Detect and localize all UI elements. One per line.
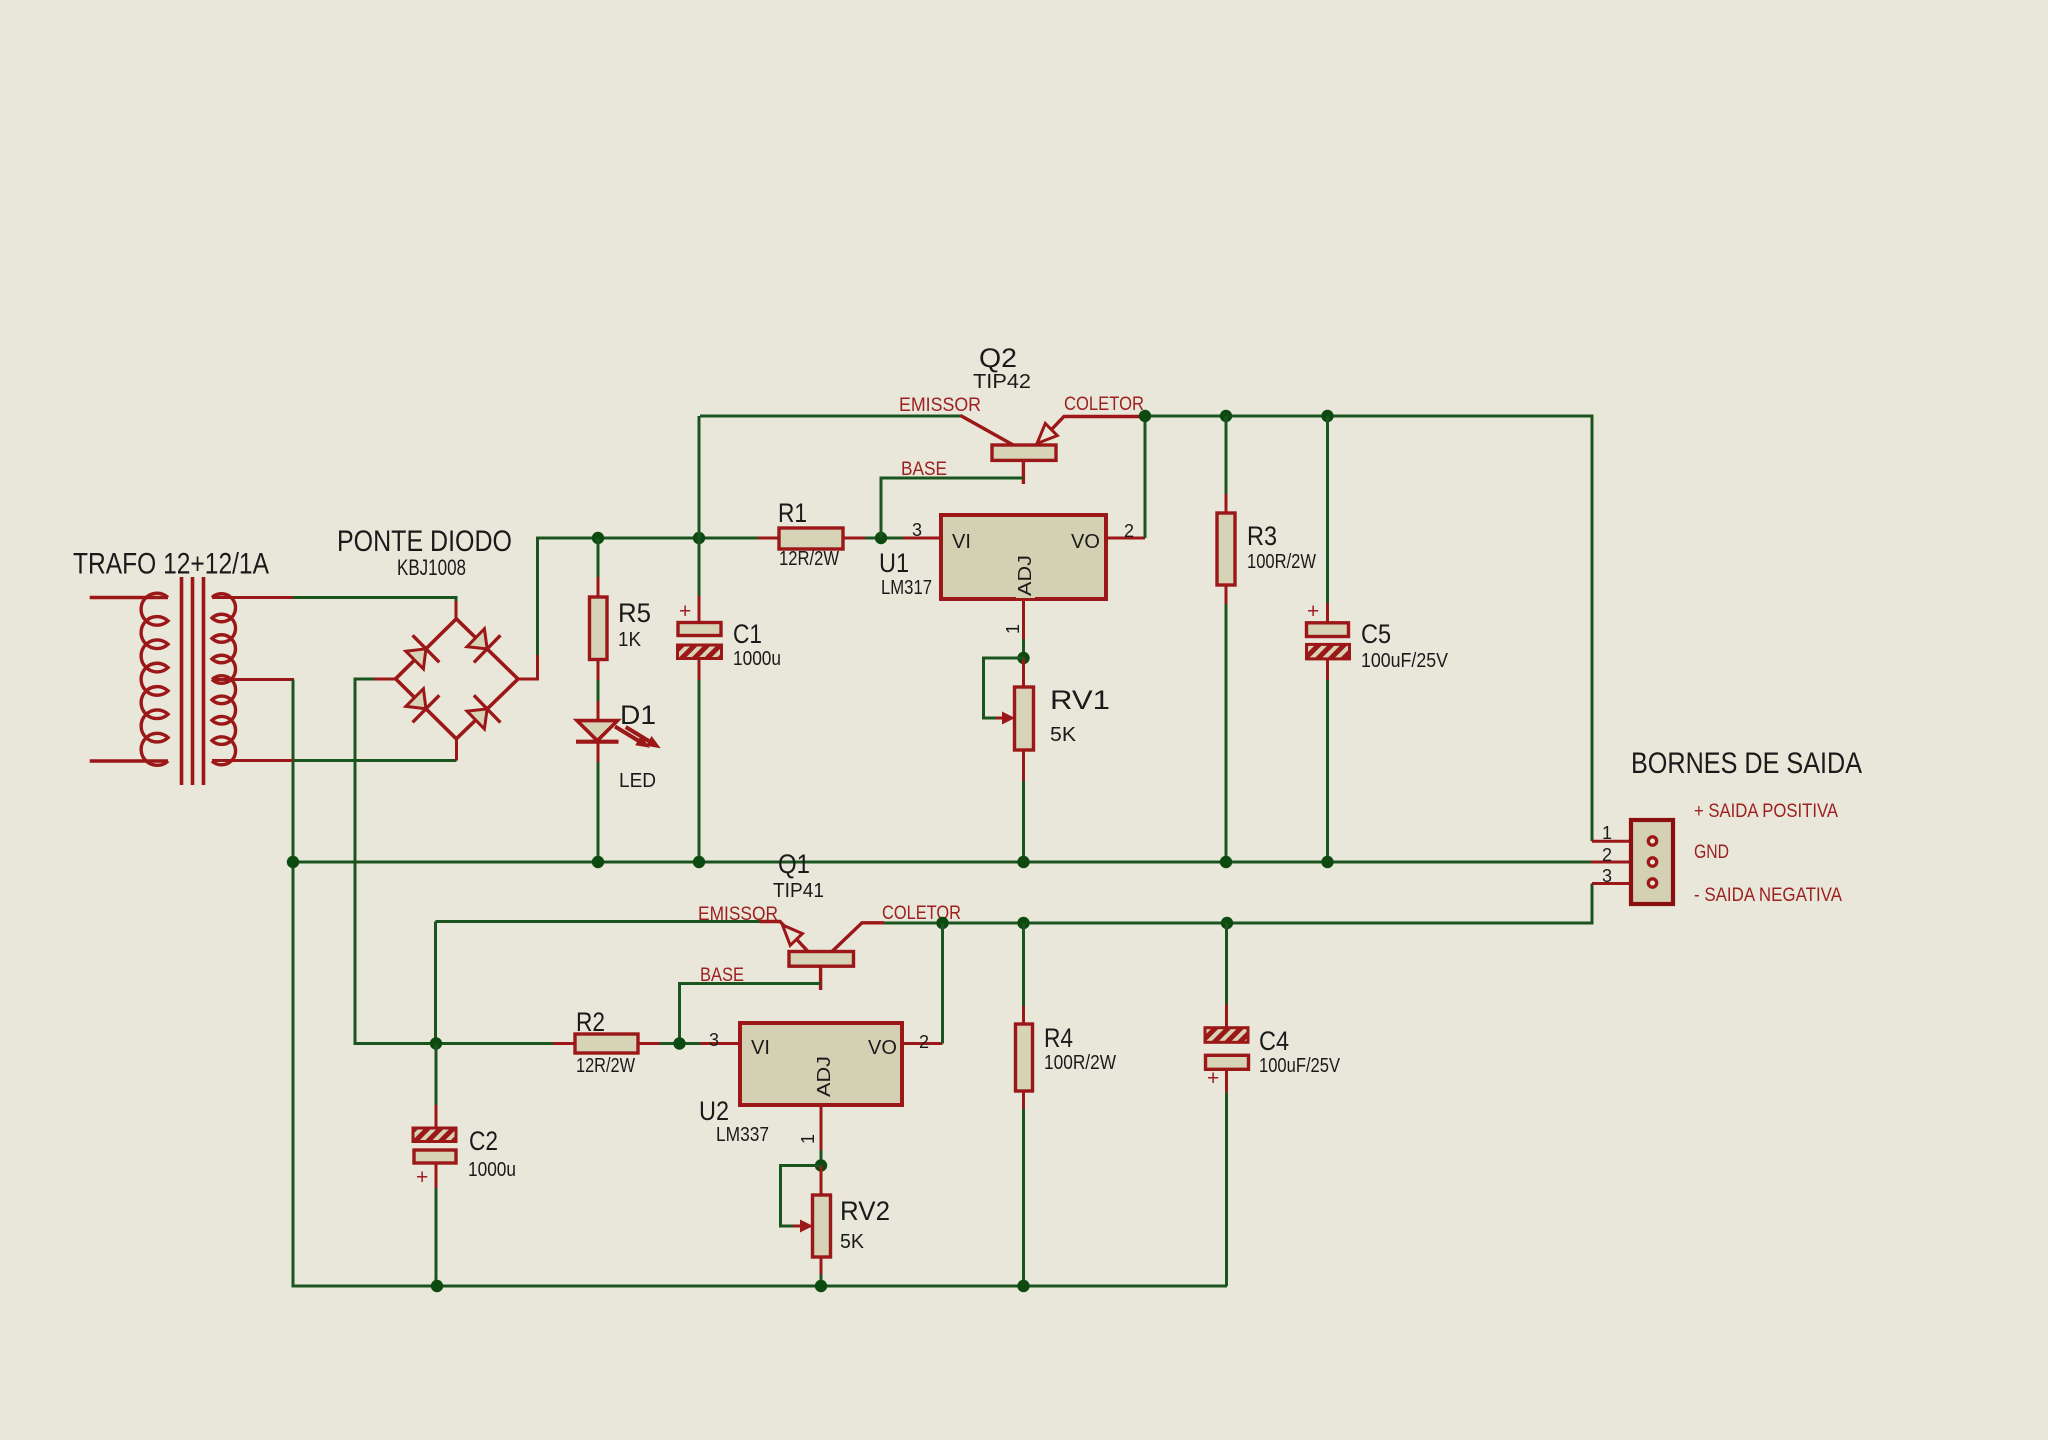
svg-text:R3: R3	[1247, 521, 1277, 551]
svg-text:Q2: Q2	[979, 343, 1017, 373]
svg-text:C5: C5	[1361, 619, 1391, 649]
label R3	[1247, 521, 1277, 551]
svg-text:2: 2	[1602, 845, 1612, 865]
wire top rail right	[1144, 416, 1592, 841]
label COLETOR Q2	[1064, 394, 1144, 415]
wire RV2 to bottom rail	[820, 1274, 823, 1286]
svg-text:VI: VI	[952, 531, 971, 553]
svg-text:+: +	[416, 1166, 428, 1189]
svg-text:5K: 5K	[840, 1231, 865, 1253]
node VI2 junction	[673, 1037, 685, 1049]
label EMISSOR Q2	[899, 395, 981, 416]
wire U2 VO to negative rail	[941, 923, 944, 1044]
label C4 plus	[1207, 1067, 1219, 1090]
transformer TR1 primary wires	[90, 598, 168, 762]
svg-text:R5: R5	[618, 598, 651, 628]
label D1	[620, 700, 656, 730]
resistor R1	[758, 528, 865, 549]
node bot-R4	[1017, 1280, 1029, 1292]
svg-text:- SAIDA NEGATIVA: - SAIDA NEGATIVA	[1694, 885, 1842, 906]
diode D-bridge bottom-right	[467, 695, 500, 729]
regulator U1 LM317	[941, 515, 1106, 599]
wire RV1 to GND rail	[1022, 781, 1025, 862]
svg-text:100R/2W: 100R/2W	[1247, 551, 1316, 573]
svg-text:KBJ1008: KBJ1008	[397, 555, 466, 580]
wire C2 to bottom rail	[435, 1188, 438, 1286]
RV1 wiper	[984, 658, 1024, 725]
label LM317	[881, 577, 932, 599]
capacitor C2	[413, 1044, 456, 1189]
wire top rail left	[700, 415, 961, 418]
svg-text:100uF/25V: 100uF/25V	[1361, 650, 1449, 672]
label RV2	[840, 1196, 890, 1226]
label 5K RV2	[840, 1231, 865, 1253]
label C2 plus	[416, 1166, 428, 1189]
svg-text:3: 3	[1602, 866, 1612, 886]
svg-text:PONTE DIODO: PONTE DIODO	[337, 525, 512, 558]
svg-text:3: 3	[912, 520, 922, 540]
label C2	[469, 1126, 498, 1156]
svg-text:EMISSOR: EMISSOR	[899, 395, 981, 416]
wire R1 to U1	[865, 537, 903, 540]
svg-text:VO: VO	[1071, 531, 1100, 553]
label EMISSOR Q1	[698, 904, 778, 925]
wire bridge top stub	[455, 601, 458, 620]
node ADJ1	[1017, 652, 1029, 664]
wire Q1 emitter	[436, 922, 760, 1044]
svg-text:GND: GND	[1694, 842, 1729, 863]
wire bridge right stub	[516, 655, 538, 679]
node gnd-C1	[693, 856, 705, 868]
label C4	[1259, 1026, 1289, 1056]
pin 1 U2	[798, 1105, 821, 1150]
transformer TR1 secondary winding	[212, 594, 236, 765]
wire U1 ADJ	[1022, 639, 1025, 658]
svg-text:VO: VO	[868, 1037, 897, 1059]
label 100uF/25V C4	[1259, 1055, 1341, 1077]
label R4	[1044, 1023, 1073, 1053]
diode D-bridge bottom-left	[406, 689, 440, 723]
label 100R/2W R3	[1247, 551, 1316, 573]
svg-text:12R/2W: 12R/2W	[779, 548, 839, 570]
transistor Q1 TIP41	[760, 922, 885, 991]
wire bridge bottom stub	[455, 737, 458, 761]
svg-text:RV1: RV1	[1050, 685, 1110, 715]
resistor R2	[436, 1034, 700, 1053]
diode D1 LED	[576, 701, 619, 762]
svg-text:R2: R2	[576, 1007, 605, 1037]
label COLETOR Q1	[882, 903, 961, 924]
node bot-RV2	[815, 1280, 827, 1292]
svg-text:BORNES DE SAIDA: BORNES DE SAIDA	[1631, 747, 1862, 780]
svg-text:U2: U2	[699, 1096, 729, 1126]
node ADJ2	[815, 1159, 827, 1171]
svg-text:D1: D1	[620, 700, 656, 730]
svg-text:5K: 5K	[1050, 724, 1077, 746]
svg-text:R4: R4	[1044, 1023, 1073, 1053]
svg-text:+: +	[1307, 600, 1319, 623]
svg-text:1: 1	[798, 1134, 818, 1144]
label TIP42	[973, 371, 1031, 393]
svg-text:+: +	[679, 600, 691, 623]
wire GND rail	[293, 861, 1591, 864]
svg-text:3: 3	[709, 1030, 719, 1050]
label GND	[1694, 842, 1729, 863]
label SAIDA NEGATIVA	[1694, 885, 1842, 906]
svg-text:100R/2W: 100R/2W	[1044, 1052, 1116, 1074]
label RV1	[1050, 685, 1110, 715]
capacitor C4	[1205, 923, 1249, 1092]
bridge frame BR1	[396, 619, 518, 739]
label 12R/2W R2	[576, 1055, 635, 1077]
wire Q2 base	[881, 478, 1023, 538]
potentiometer RV1	[1015, 658, 1034, 781]
wire secondary top to bridge	[293, 598, 456, 604]
label 12R/2W	[779, 548, 839, 570]
svg-text:LED: LED	[619, 770, 656, 792]
diode D-bridge top-left	[406, 635, 440, 669]
label SAIDA POSITIVA	[1694, 801, 1838, 822]
svg-text:U1: U1	[879, 548, 909, 578]
svg-text:C1: C1	[733, 619, 762, 649]
pin 2 U2	[902, 1032, 943, 1052]
node neg-C4	[1221, 917, 1233, 929]
svg-text:TIP41: TIP41	[773, 880, 824, 902]
label 5K RV1	[1050, 724, 1077, 746]
wire bridge left stub	[374, 678, 397, 681]
label C5 plus	[1307, 600, 1319, 623]
wire Q1 base	[680, 984, 821, 1044]
label U1	[879, 548, 909, 578]
svg-text:1: 1	[1602, 823, 1612, 843]
pin 2 U1	[1106, 521, 1145, 541]
wire U2 ADJ	[820, 1150, 823, 1166]
wire D1 to GND rail	[597, 762, 600, 862]
wire R5 top	[597, 538, 600, 577]
svg-text:C4: C4	[1259, 1026, 1289, 1056]
potentiometer RV2	[813, 1166, 831, 1275]
label BORNES DE SAIDA	[1631, 747, 1862, 780]
svg-text:LM337: LM337	[716, 1124, 769, 1146]
wire V+ mid rail	[538, 538, 759, 655]
wire C4 to bottom rail	[1225, 1092, 1228, 1286]
svg-text:+: +	[1207, 1067, 1219, 1090]
svg-text:C2: C2	[469, 1126, 498, 1156]
svg-text:COLETOR: COLETOR	[882, 903, 961, 924]
node VI junction	[875, 532, 887, 544]
label U2	[699, 1096, 729, 1126]
capacitor C5	[1307, 416, 1350, 862]
node bot-C2	[431, 1280, 443, 1292]
pin 3 U2	[700, 1030, 740, 1050]
resistor R4	[1016, 923, 1033, 1286]
label C1	[733, 619, 762, 649]
wire R5 to D1	[597, 680, 600, 701]
capacitor C1	[678, 596, 722, 680]
wire center tap pin	[212, 678, 294, 681]
node C2 junction	[430, 1037, 442, 1049]
label Q2	[979, 343, 1017, 373]
svg-text:ADJ: ADJ	[814, 1056, 834, 1097]
label R2	[576, 1007, 605, 1037]
node neg-VO2	[936, 917, 948, 929]
wire bridge minus to lower half	[355, 679, 436, 1044]
svg-text:12R/2W: 12R/2W	[576, 1055, 635, 1077]
wire secondary top pin	[212, 596, 293, 599]
label 100R/2W R4	[1044, 1052, 1116, 1074]
transformer TR1 core	[182, 577, 204, 785]
svg-text:Q1: Q1	[778, 849, 810, 879]
svg-text:1K: 1K	[618, 629, 642, 651]
label TIP41	[773, 880, 824, 902]
node gnd-tap	[287, 856, 299, 868]
label 1000u C2	[468, 1159, 516, 1181]
label LM337	[716, 1124, 769, 1146]
label PONTE DIODO	[337, 525, 512, 558]
regulator U2 LM337	[740, 1023, 902, 1105]
resistor R5	[590, 577, 608, 680]
label TRAFO 12+12/1A	[73, 548, 269, 581]
svg-text:1000u: 1000u	[733, 648, 781, 670]
label R1	[778, 498, 807, 528]
svg-text:100uF/25V: 100uF/25V	[1259, 1055, 1341, 1077]
node top-R3	[1220, 410, 1232, 422]
node mid-C1	[693, 532, 705, 544]
svg-text:2: 2	[1124, 521, 1134, 541]
svg-text:1: 1	[1003, 624, 1023, 634]
node mid-R5	[592, 532, 604, 544]
label C1 plus	[679, 600, 691, 623]
label 1K	[618, 629, 642, 651]
connector J1 BORNES	[1631, 820, 1673, 904]
svg-text:TIP42: TIP42	[973, 371, 1031, 393]
LED arrows D1	[615, 727, 661, 749]
transistor Q2 TIP42	[961, 416, 1145, 485]
svg-text:R1: R1	[778, 498, 807, 528]
svg-text:LM317: LM317	[881, 577, 932, 599]
wire center tap to ground rail	[293, 680, 1227, 1287]
svg-text:1000u: 1000u	[468, 1159, 516, 1181]
label C5	[1361, 619, 1391, 649]
label LED	[619, 770, 656, 792]
wire secondary bottom to bridge	[293, 759, 457, 762]
label 1000u	[733, 648, 781, 670]
node gnd-R3	[1220, 856, 1232, 868]
node top-VO	[1139, 410, 1151, 422]
svg-text:RV2: RV2	[840, 1196, 890, 1226]
node gnd-R5	[592, 856, 604, 868]
wire mid to top rail	[698, 416, 701, 596]
svg-text:+ SAIDA POSITIVA: + SAIDA POSITIVA	[1694, 801, 1838, 822]
wire secondary bottom pin	[212, 759, 293, 762]
svg-text:VI: VI	[751, 1037, 770, 1059]
node gnd-RV1	[1017, 856, 1029, 868]
node top-C5	[1321, 410, 1333, 422]
pin 3 U1	[903, 520, 941, 540]
RV2 wiper	[781, 1166, 822, 1233]
transformer TR1 primary winding	[141, 593, 168, 765]
node neg-R4	[1017, 917, 1029, 929]
label Q1	[778, 849, 810, 879]
wire negative rail	[884, 884, 1592, 924]
pin 2 connector wire	[1591, 845, 1647, 865]
svg-text:2: 2	[919, 1032, 929, 1052]
diode D-bridge top-right	[467, 629, 500, 663]
svg-text:TRAFO 12+12/1A: TRAFO 12+12/1A	[73, 548, 269, 581]
label KBJ1008	[397, 555, 466, 580]
label R5	[618, 598, 651, 628]
label BASE Q1	[700, 965, 744, 986]
wire C1 to GND rail	[698, 680, 701, 862]
svg-text:ADJ: ADJ	[1015, 555, 1035, 596]
node gnd-C5	[1321, 856, 1333, 868]
svg-text:COLETOR: COLETOR	[1064, 394, 1144, 415]
pin 1 connector wire	[1592, 823, 1647, 843]
pin 1 U1	[1003, 599, 1024, 639]
label 100uF/25V C5	[1361, 650, 1449, 672]
label BASE Q2	[901, 459, 947, 480]
resistor R3	[1217, 416, 1235, 862]
pin 3 connector wire	[1592, 866, 1647, 886]
wire U1 VO to top rail	[1144, 416, 1147, 538]
